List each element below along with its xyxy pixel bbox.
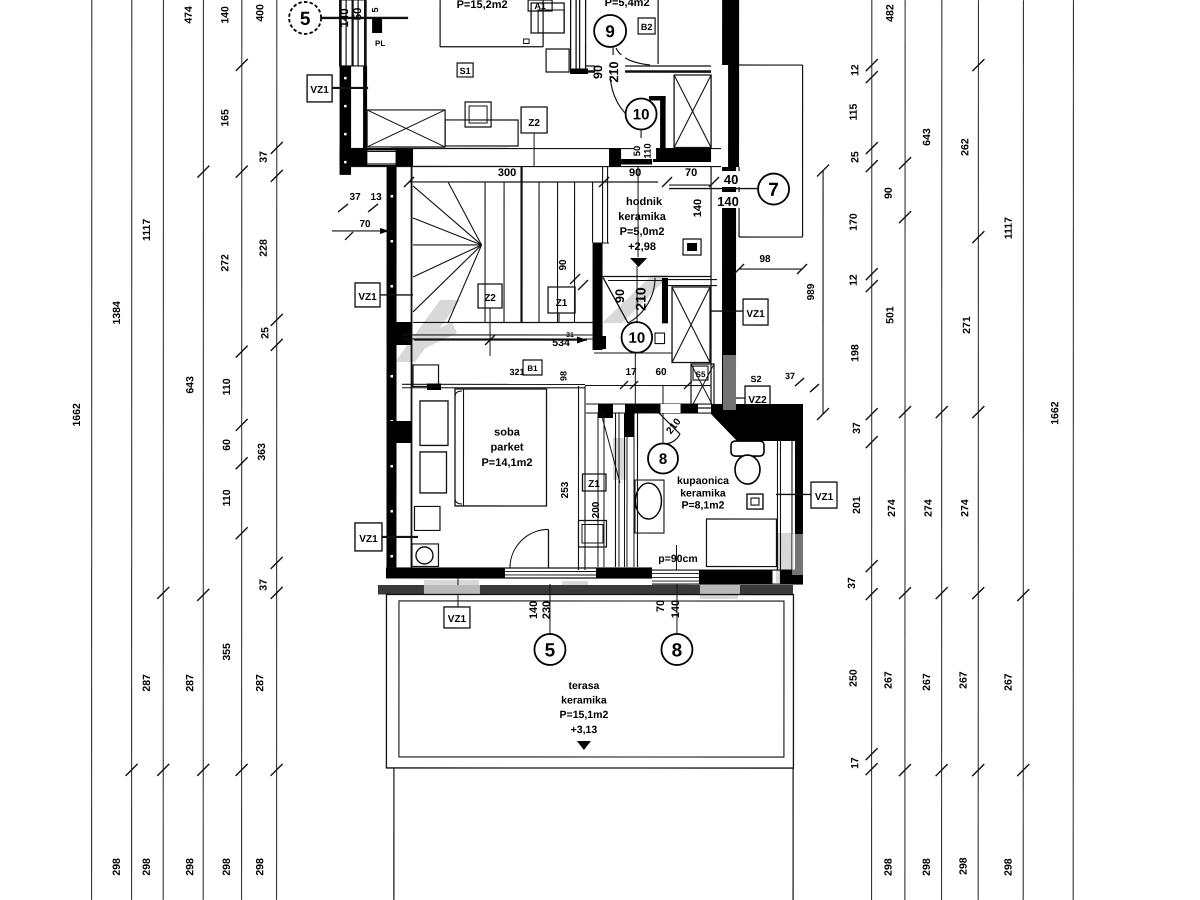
svg-text:267: 267: [1003, 673, 1015, 691]
svg-text:267: 267: [958, 671, 970, 689]
svg-text:140: 140: [670, 600, 682, 618]
svg-text:253: 253: [560, 481, 571, 498]
svg-text:B1: B1: [527, 364, 538, 373]
svg-text:272: 272: [219, 254, 231, 272]
svg-text:8: 8: [672, 640, 683, 661]
svg-text:37: 37: [846, 577, 858, 589]
svg-text:201: 201: [851, 496, 863, 514]
svg-text:keramika: keramika: [561, 694, 607, 706]
svg-text:25: 25: [259, 327, 271, 339]
svg-text:274: 274: [886, 499, 898, 517]
svg-text:kupaonica: kupaonica: [677, 475, 729, 487]
svg-text:210: 210: [607, 62, 621, 83]
svg-text:363: 363: [256, 443, 268, 461]
svg-text:Z2: Z2: [484, 293, 496, 304]
svg-text:12: 12: [849, 64, 861, 76]
svg-text:Z1: Z1: [588, 479, 600, 490]
svg-text:267: 267: [921, 673, 933, 691]
svg-text:VZ1: VZ1: [815, 492, 834, 503]
svg-text:298: 298: [141, 858, 153, 876]
svg-text:140: 140: [692, 199, 704, 217]
svg-text:keramika: keramika: [680, 488, 726, 500]
svg-text:90: 90: [883, 187, 895, 199]
svg-text:140: 140: [339, 8, 351, 27]
svg-text:12: 12: [848, 274, 860, 286]
svg-text:P=5,0m2: P=5,0m2: [620, 226, 665, 238]
svg-text:90: 90: [558, 259, 569, 271]
svg-text:298: 298: [184, 858, 196, 876]
svg-text:198: 198: [849, 344, 861, 362]
svg-text:274: 274: [959, 499, 971, 517]
svg-text:60: 60: [655, 367, 667, 378]
svg-text:1117: 1117: [1003, 217, 1015, 239]
svg-text:17: 17: [849, 757, 861, 769]
svg-text:17: 17: [625, 367, 637, 378]
svg-text:298: 298: [883, 858, 895, 876]
svg-text:37: 37: [258, 579, 270, 591]
svg-text:110: 110: [221, 378, 233, 395]
svg-text:25: 25: [849, 151, 861, 163]
svg-text:298: 298: [111, 858, 123, 876]
svg-text:298: 298: [254, 858, 266, 876]
svg-text:S5: S5: [696, 370, 706, 379]
svg-text:643: 643: [184, 376, 196, 394]
svg-text:13: 13: [371, 192, 383, 203]
svg-text:5: 5: [545, 640, 556, 661]
svg-text:P=15,2m2: P=15,2m2: [457, 0, 508, 11]
svg-text:terasa: terasa: [568, 680, 599, 692]
svg-text:140: 140: [717, 194, 739, 209]
svg-text:210: 210: [633, 287, 649, 311]
svg-text:1662: 1662: [71, 403, 83, 427]
svg-text:50: 50: [352, 8, 364, 21]
svg-text:110: 110: [643, 143, 654, 158]
svg-text:8: 8: [659, 451, 667, 468]
svg-text:5: 5: [370, 7, 380, 12]
svg-text:298: 298: [921, 858, 933, 876]
svg-text:9: 9: [605, 22, 614, 41]
svg-text:B2: B2: [641, 22, 653, 32]
svg-text:VZ1: VZ1: [746, 309, 765, 320]
svg-text:Z1: Z1: [556, 298, 568, 309]
svg-text:355: 355: [221, 643, 233, 661]
svg-text:230: 230: [541, 601, 553, 619]
svg-text:VZ1: VZ1: [310, 85, 329, 96]
svg-text:10: 10: [628, 330, 645, 347]
svg-text:274: 274: [923, 499, 935, 517]
svg-text:+3,13: +3,13: [571, 724, 598, 736]
svg-text:70: 70: [655, 600, 667, 612]
svg-text:90: 90: [591, 65, 605, 79]
svg-text:98: 98: [759, 254, 771, 265]
svg-text:165: 165: [219, 109, 231, 127]
svg-text:90: 90: [629, 167, 641, 179]
svg-text:474: 474: [183, 6, 195, 24]
svg-text:60: 60: [221, 439, 233, 451]
svg-text:soba: soba: [494, 426, 521, 438]
svg-text:250: 250: [848, 669, 860, 687]
svg-text:5: 5: [300, 9, 311, 30]
svg-text:10: 10: [633, 106, 650, 123]
svg-text:298: 298: [958, 857, 970, 875]
svg-text:PL: PL: [375, 39, 385, 48]
svg-text:p=90cm: p=90cm: [658, 553, 697, 565]
svg-text:37: 37: [851, 422, 863, 434]
svg-text:P=14,1m2: P=14,1m2: [481, 457, 532, 469]
svg-text:287: 287: [184, 674, 196, 692]
svg-text:115: 115: [848, 103, 860, 120]
svg-text:482: 482: [884, 4, 896, 22]
svg-text:keramika: keramika: [618, 211, 667, 223]
svg-text:P=5,4m2: P=5,4m2: [605, 0, 650, 9]
svg-text:501: 501: [884, 306, 896, 324]
svg-text:271: 271: [961, 316, 973, 334]
svg-text:40: 40: [724, 172, 738, 187]
svg-text:70: 70: [359, 219, 371, 230]
svg-text:S2: S2: [751, 374, 762, 384]
svg-text:50: 50: [632, 146, 643, 157]
svg-text:298: 298: [1003, 858, 1015, 876]
svg-text:hodnik: hodnik: [626, 196, 663, 208]
svg-text:VZ1: VZ1: [448, 614, 467, 625]
svg-text:90: 90: [613, 289, 627, 303]
svg-text:262: 262: [959, 138, 971, 156]
svg-text:287: 287: [254, 674, 266, 692]
svg-text:37: 37: [350, 192, 362, 203]
svg-text:170: 170: [848, 213, 860, 231]
svg-text:1384: 1384: [111, 301, 123, 325]
svg-text:140: 140: [528, 601, 540, 619]
svg-text:37: 37: [258, 151, 270, 163]
svg-text:1117: 1117: [141, 219, 153, 241]
svg-text:P=8,1m2: P=8,1m2: [682, 500, 725, 512]
svg-text:298: 298: [221, 858, 233, 876]
svg-text:+2,98: +2,98: [628, 241, 656, 253]
svg-text:140: 140: [219, 6, 231, 24]
svg-text:S1: S1: [460, 66, 471, 76]
svg-text:98: 98: [559, 371, 569, 381]
svg-text:P=15,1m2: P=15,1m2: [560, 709, 609, 721]
svg-text:400: 400: [254, 4, 266, 22]
svg-text:VZ1: VZ1: [359, 534, 378, 545]
svg-text:1662: 1662: [1049, 401, 1061, 425]
svg-text:200: 200: [591, 501, 602, 518]
svg-text:parket: parket: [490, 441, 523, 453]
svg-text:37: 37: [785, 371, 795, 381]
svg-text:287: 287: [141, 674, 153, 692]
svg-text:Z2: Z2: [528, 118, 540, 129]
svg-text:321: 321: [510, 367, 525, 377]
svg-text:989: 989: [806, 283, 817, 300]
svg-text:643: 643: [921, 128, 933, 146]
svg-text:7: 7: [768, 180, 779, 201]
svg-text:300: 300: [498, 167, 516, 179]
svg-text:228: 228: [258, 239, 270, 257]
svg-text:110: 110: [221, 489, 233, 506]
svg-text:VZ1: VZ1: [358, 292, 377, 303]
svg-text:70: 70: [685, 167, 697, 179]
svg-text:267: 267: [883, 671, 895, 689]
